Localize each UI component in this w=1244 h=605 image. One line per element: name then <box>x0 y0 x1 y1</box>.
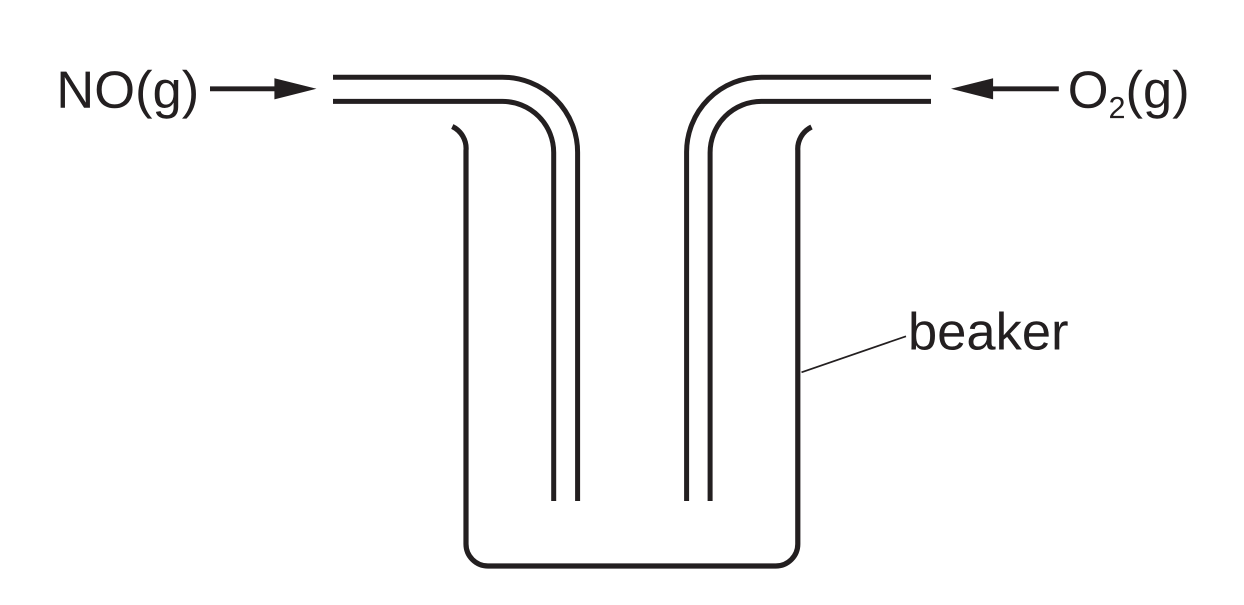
left delivery tube outer wall <box>333 77 578 501</box>
label O2(g) <box>1070 70 1186 119</box>
leader line to beaker <box>802 336 907 372</box>
right delivery tube outer wall <box>687 77 931 501</box>
left delivery tube inner wall <box>333 101 554 501</box>
label NO(g) <box>61 70 196 119</box>
beaker <box>452 127 811 567</box>
arrow NO inlet <box>210 78 317 99</box>
label beaker <box>911 311 1067 350</box>
right delivery tube inner wall <box>710 101 931 501</box>
arrow O2 inlet <box>951 78 1059 99</box>
